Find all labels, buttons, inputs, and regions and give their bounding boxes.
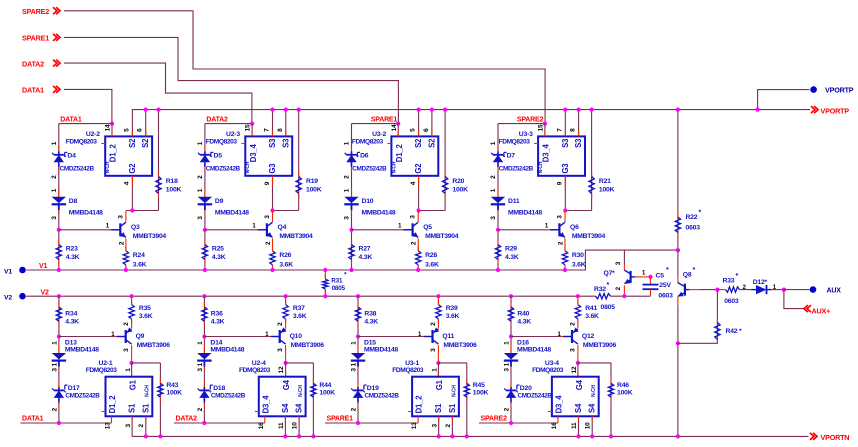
svg-text:R35: R35 xyxy=(139,305,151,312)
svg-text:U3-2: U3-2 xyxy=(372,131,386,138)
svg-text:1: 1 xyxy=(490,188,497,192)
svg-text:MMBT3904: MMBT3904 xyxy=(572,233,606,240)
svg-text:D12*: D12* xyxy=(753,279,768,286)
svg-text:3: 3 xyxy=(410,215,417,219)
svg-text:S1: S1 xyxy=(141,403,150,413)
svg-text:R46: R46 xyxy=(617,382,629,389)
svg-text:2: 2 xyxy=(411,241,418,245)
svg-text:CMDZ5242B: CMDZ5242B xyxy=(518,392,553,399)
svg-text:1: 1 xyxy=(197,188,204,192)
svg-text:CMDZ5242B: CMDZ5242B xyxy=(365,392,400,399)
svg-text:1: 1 xyxy=(125,368,132,372)
svg-text:R42 *: R42 * xyxy=(726,328,743,335)
svg-text:3: 3 xyxy=(615,261,622,265)
svg-text:N-CH: N-CH xyxy=(105,161,111,173)
svg-text:N-CH: N-CH xyxy=(245,161,251,173)
svg-text:2: 2 xyxy=(445,424,452,428)
svg-text:MMBD4148: MMBD4148 xyxy=(362,210,396,217)
svg-text:MMBT3904: MMBT3904 xyxy=(425,233,459,240)
svg-text:0603: 0603 xyxy=(724,298,739,305)
svg-text:DATA1: DATA1 xyxy=(60,116,82,123)
svg-text:FDMQ8203: FDMQ8203 xyxy=(86,367,118,374)
svg-text:12: 12 xyxy=(571,366,578,373)
svg-text:11: 11 xyxy=(571,422,578,429)
svg-text:7: 7 xyxy=(264,128,271,132)
svg-text:S4: S4 xyxy=(574,403,583,413)
svg-text:1: 1 xyxy=(504,362,511,366)
svg-text:R19: R19 xyxy=(306,178,318,185)
svg-text:0805: 0805 xyxy=(601,304,616,311)
svg-text:R23: R23 xyxy=(66,246,78,253)
svg-text:Q4: Q4 xyxy=(278,224,287,231)
svg-text:3: 3 xyxy=(123,348,130,352)
svg-text:Q8: Q8 xyxy=(683,272,692,279)
svg-text:D18: D18 xyxy=(213,385,225,392)
svg-text:7: 7 xyxy=(556,128,563,132)
svg-text:D20: D20 xyxy=(520,385,532,392)
svg-text:S1: S1 xyxy=(448,403,457,413)
svg-text:100K: 100K xyxy=(166,186,182,193)
svg-text:MMBD4148: MMBD4148 xyxy=(364,346,398,353)
svg-text:3: 3 xyxy=(351,368,358,372)
svg-text:4.3K: 4.3K xyxy=(65,319,79,326)
svg-text:4: 4 xyxy=(410,181,417,185)
svg-text:N-CH: N-CH xyxy=(298,385,304,397)
svg-text:CMDZ5242B: CMDZ5242B xyxy=(65,392,100,399)
svg-text:2: 2 xyxy=(615,287,622,291)
svg-text:DATA2: DATA2 xyxy=(176,416,198,423)
svg-text:S4: S4 xyxy=(295,403,304,413)
svg-text:D17: D17 xyxy=(68,385,80,392)
svg-text:2: 2 xyxy=(197,175,204,179)
svg-text:MMBD4148: MMBD4148 xyxy=(517,346,551,353)
svg-text:Q9: Q9 xyxy=(136,333,145,340)
svg-text:R22: R22 xyxy=(686,214,698,221)
svg-text:C5: C5 xyxy=(656,272,665,279)
svg-text:2: 2 xyxy=(265,241,272,245)
svg-text:R18: R18 xyxy=(166,178,178,185)
svg-text:4.3K: 4.3K xyxy=(212,254,226,261)
svg-text:R20: R20 xyxy=(452,178,464,185)
svg-text:0603: 0603 xyxy=(686,225,701,232)
svg-text:N-CH: N-CH xyxy=(391,161,397,173)
svg-text:2: 2 xyxy=(504,407,511,411)
svg-text:3: 3 xyxy=(197,216,204,220)
svg-text:10: 10 xyxy=(292,422,299,429)
svg-text:N-CH: N-CH xyxy=(451,385,457,397)
svg-text:100K: 100K xyxy=(319,390,335,397)
svg-text:100K: 100K xyxy=(452,186,468,193)
svg-text:1: 1 xyxy=(51,362,58,366)
svg-text:1: 1 xyxy=(51,188,58,192)
svg-text:S1: S1 xyxy=(434,403,443,413)
svg-text:FDMQ8203: FDMQ8203 xyxy=(392,367,424,374)
svg-text:100K: 100K xyxy=(166,390,182,397)
svg-text:SPARE2: SPARE2 xyxy=(481,416,508,423)
svg-text:3.6K: 3.6K xyxy=(572,261,586,268)
svg-text:D11: D11 xyxy=(508,198,520,205)
svg-text:MMBT3906: MMBT3906 xyxy=(443,342,477,349)
svg-text:25V: 25V xyxy=(659,282,671,289)
svg-text:8: 8 xyxy=(570,128,577,132)
svg-text:MMBT3904: MMBT3904 xyxy=(279,233,313,240)
svg-text:SPARE1: SPARE1 xyxy=(327,416,354,423)
svg-text:SPARE1: SPARE1 xyxy=(371,116,398,123)
svg-text:D6: D6 xyxy=(360,152,369,159)
svg-text:D8: D8 xyxy=(69,198,78,205)
svg-text:S4: S4 xyxy=(588,403,597,413)
svg-text:D9: D9 xyxy=(215,198,224,205)
svg-text:FDMQ8203: FDMQ8203 xyxy=(66,138,98,145)
svg-text:16: 16 xyxy=(551,422,558,429)
svg-text:3: 3 xyxy=(344,216,351,220)
svg-text:100K: 100K xyxy=(306,186,322,193)
svg-text:D1_2: D1_2 xyxy=(415,395,424,414)
svg-text:2: 2 xyxy=(197,407,204,411)
svg-text:MMBT3906: MMBT3906 xyxy=(137,342,171,349)
svg-text:5: 5 xyxy=(410,128,417,132)
svg-text:MMBD4148: MMBD4148 xyxy=(215,210,249,217)
svg-text:D3_4: D3_4 xyxy=(249,144,258,163)
svg-text:2: 2 xyxy=(118,241,125,245)
svg-text:14: 14 xyxy=(105,124,112,131)
svg-text:CMDZ5242B: CMDZ5242B xyxy=(352,165,387,172)
svg-text:FDMQ8203: FDMQ8203 xyxy=(352,138,384,145)
svg-text:2: 2 xyxy=(123,322,130,326)
svg-text:1: 1 xyxy=(504,341,511,345)
svg-text:G1: G1 xyxy=(129,379,138,390)
svg-text:3: 3 xyxy=(570,348,577,352)
svg-text:G4: G4 xyxy=(282,379,291,390)
svg-text:R34: R34 xyxy=(65,311,77,318)
svg-text:1: 1 xyxy=(490,141,497,145)
svg-text:10: 10 xyxy=(585,422,592,429)
svg-text:4.3K: 4.3K xyxy=(66,254,80,261)
svg-text:4.3K: 4.3K xyxy=(517,319,531,326)
svg-text:3.6K: 3.6K xyxy=(139,313,153,320)
svg-text:CMDZ5242B: CMDZ5242B xyxy=(206,165,241,172)
svg-text:DATA1: DATA1 xyxy=(22,86,44,95)
svg-text:3: 3 xyxy=(264,215,271,219)
svg-text:S2: S2 xyxy=(128,138,137,148)
svg-text:D3_4: D3_4 xyxy=(554,395,563,414)
svg-text:S4: S4 xyxy=(281,403,290,413)
svg-text:SPARE2: SPARE2 xyxy=(22,7,49,16)
svg-text:R39: R39 xyxy=(446,305,458,312)
svg-text:D1_2: D1_2 xyxy=(109,144,118,163)
svg-text:3: 3 xyxy=(556,215,563,219)
svg-text:S3: S3 xyxy=(574,138,583,148)
svg-text:G3: G3 xyxy=(268,163,277,174)
svg-text:3.6K: 3.6K xyxy=(446,313,460,320)
svg-text:U2-2: U2-2 xyxy=(86,131,100,138)
svg-text:U2-3: U2-3 xyxy=(226,131,240,138)
svg-text:9: 9 xyxy=(264,181,271,185)
svg-text:G1: G1 xyxy=(435,379,444,390)
svg-text:R30: R30 xyxy=(572,252,584,259)
svg-text:MMBD4148: MMBD4148 xyxy=(210,346,244,353)
svg-text:AUX: AUX xyxy=(827,288,842,295)
svg-text:D10: D10 xyxy=(362,198,374,205)
svg-text:3: 3 xyxy=(277,348,284,352)
svg-text:4.3K: 4.3K xyxy=(505,254,519,261)
svg-text:1: 1 xyxy=(351,362,358,366)
svg-text:N-CH: N-CH xyxy=(145,385,151,397)
svg-text:R40: R40 xyxy=(517,311,529,318)
svg-text:Q5: Q5 xyxy=(423,224,432,231)
svg-text:1: 1 xyxy=(344,188,351,192)
svg-text:MMBD4148: MMBD4148 xyxy=(508,210,542,217)
svg-text:R43: R43 xyxy=(166,382,178,389)
svg-text:13: 13 xyxy=(411,422,418,429)
svg-text:S1: S1 xyxy=(128,403,137,413)
svg-text:2: 2 xyxy=(277,322,284,326)
svg-text:0805: 0805 xyxy=(332,285,346,292)
svg-text:D1_2: D1_2 xyxy=(108,395,117,414)
svg-text:2: 2 xyxy=(557,241,564,245)
svg-text:SPARE2: SPARE2 xyxy=(517,116,544,123)
svg-text:D4: D4 xyxy=(67,152,76,159)
svg-text:4.3K: 4.3K xyxy=(364,319,378,326)
svg-text:100K: 100K xyxy=(617,390,633,397)
svg-text:V1: V1 xyxy=(4,268,12,275)
svg-text:12: 12 xyxy=(278,366,285,373)
svg-text:DATA2: DATA2 xyxy=(22,59,44,68)
svg-text:2: 2 xyxy=(51,175,58,179)
svg-text:3.6K: 3.6K xyxy=(425,261,439,268)
svg-text:4.3K: 4.3K xyxy=(359,254,373,261)
svg-text:Q10: Q10 xyxy=(290,333,303,340)
svg-text:3: 3 xyxy=(51,368,58,372)
svg-text:S2: S2 xyxy=(427,138,436,148)
svg-text:16: 16 xyxy=(258,422,265,429)
svg-text:G3: G3 xyxy=(561,163,570,174)
svg-text:S3: S3 xyxy=(281,138,290,148)
svg-text:VPORTN: VPORTN xyxy=(821,433,850,442)
svg-text:11: 11 xyxy=(278,422,285,429)
svg-text:2: 2 xyxy=(138,424,145,428)
svg-text:FDMQ8203: FDMQ8203 xyxy=(239,367,271,374)
svg-text:0603: 0603 xyxy=(658,292,673,299)
svg-text:DATA1: DATA1 xyxy=(22,416,44,423)
svg-text:R28: R28 xyxy=(425,252,437,259)
svg-text:3: 3 xyxy=(490,216,497,220)
svg-text:S3: S3 xyxy=(268,138,277,148)
svg-text:N-CH: N-CH xyxy=(538,161,544,173)
svg-text:Q6: Q6 xyxy=(570,224,579,231)
svg-text:FDMQ8203: FDMQ8203 xyxy=(532,367,564,374)
svg-text:6: 6 xyxy=(137,128,144,132)
svg-text:MMBD4148: MMBD4148 xyxy=(65,346,99,353)
svg-text:V1: V1 xyxy=(39,263,47,270)
svg-text:4.3K: 4.3K xyxy=(211,319,225,326)
svg-text:2: 2 xyxy=(351,407,358,411)
svg-text:9: 9 xyxy=(557,181,564,185)
svg-text:1: 1 xyxy=(431,368,438,372)
svg-text:5: 5 xyxy=(123,128,130,132)
svg-text:1: 1 xyxy=(197,362,204,366)
svg-text:R27: R27 xyxy=(359,246,371,253)
svg-text:3: 3 xyxy=(51,216,58,220)
svg-text:CMDZ5242B: CMDZ5242B xyxy=(60,165,95,172)
svg-text:FDMQ8203: FDMQ8203 xyxy=(499,138,531,145)
svg-text:VPORTP: VPORTP xyxy=(825,86,854,95)
svg-text:R24: R24 xyxy=(133,252,145,259)
svg-text:3: 3 xyxy=(504,368,511,372)
svg-text:100K: 100K xyxy=(473,390,489,397)
svg-text:15: 15 xyxy=(245,124,252,131)
svg-text:MMBT3904: MMBT3904 xyxy=(133,233,167,240)
svg-text:15: 15 xyxy=(538,124,545,131)
svg-text:FDMQ8203: FDMQ8203 xyxy=(206,138,238,145)
svg-text:Q3: Q3 xyxy=(131,224,140,231)
svg-text:Q11: Q11 xyxy=(442,333,454,340)
svg-text:N-CH: N-CH xyxy=(591,385,597,397)
svg-text:R41: R41 xyxy=(585,305,597,312)
svg-text:R37: R37 xyxy=(293,305,305,312)
svg-text:8: 8 xyxy=(277,128,284,132)
svg-text:D3_4: D3_4 xyxy=(261,395,270,414)
svg-text:R45: R45 xyxy=(473,382,485,389)
svg-text:Q12: Q12 xyxy=(582,333,595,340)
svg-text:D1_2: D1_2 xyxy=(395,144,404,163)
svg-text:14: 14 xyxy=(391,124,398,131)
svg-text:V2: V2 xyxy=(41,290,49,297)
svg-text:1: 1 xyxy=(51,341,58,345)
svg-text:2: 2 xyxy=(430,322,437,326)
svg-text:R36: R36 xyxy=(211,311,223,318)
svg-text:3: 3 xyxy=(117,215,124,219)
svg-text:S3: S3 xyxy=(561,138,570,148)
svg-text:MMBT3906: MMBT3906 xyxy=(583,342,617,349)
svg-text:3: 3 xyxy=(431,424,438,428)
svg-text:R44: R44 xyxy=(319,382,331,389)
svg-text:4: 4 xyxy=(124,181,131,185)
svg-text:R29: R29 xyxy=(505,246,517,253)
svg-text:3: 3 xyxy=(125,424,132,428)
svg-text:3.6K: 3.6K xyxy=(585,313,599,320)
svg-text:G2: G2 xyxy=(128,163,137,174)
svg-text:G2: G2 xyxy=(414,163,423,174)
svg-text:CMDZ5242B: CMDZ5242B xyxy=(211,392,246,399)
svg-text:100K: 100K xyxy=(599,186,615,193)
svg-text:3: 3 xyxy=(430,348,437,352)
svg-text:R21: R21 xyxy=(599,178,611,185)
svg-text:U3-3: U3-3 xyxy=(519,131,533,138)
svg-text:D19: D19 xyxy=(367,385,379,392)
svg-text:1: 1 xyxy=(197,341,204,345)
svg-text:Q7*: Q7* xyxy=(604,270,616,277)
svg-text:2: 2 xyxy=(570,322,577,326)
svg-text:R25: R25 xyxy=(212,246,224,253)
svg-text:3: 3 xyxy=(197,368,204,372)
svg-text:1: 1 xyxy=(351,341,358,345)
svg-text:1: 1 xyxy=(51,141,58,145)
svg-text:G4: G4 xyxy=(575,379,584,390)
svg-text:D5: D5 xyxy=(214,152,223,159)
svg-text:D3_4: D3_4 xyxy=(542,144,551,163)
svg-text:S2: S2 xyxy=(414,138,423,148)
svg-text:3.6K: 3.6K xyxy=(133,261,147,268)
svg-text:R32: R32 xyxy=(594,286,606,293)
svg-text:V2: V2 xyxy=(4,295,12,302)
svg-text:VPORTP: VPORTP xyxy=(821,106,850,115)
svg-text:2: 2 xyxy=(344,175,351,179)
svg-text:DATA2: DATA2 xyxy=(206,116,228,123)
svg-text:13: 13 xyxy=(105,422,112,429)
svg-text:S2: S2 xyxy=(141,138,150,148)
svg-text:1: 1 xyxy=(344,141,351,145)
svg-text:2: 2 xyxy=(490,175,497,179)
svg-text:AUX+: AUX+ xyxy=(812,306,831,315)
svg-text:CMDZ5242B: CMDZ5242B xyxy=(499,165,534,172)
svg-text:R38: R38 xyxy=(364,311,376,318)
svg-text:MMBD4148: MMBD4148 xyxy=(69,210,103,217)
svg-text:R26: R26 xyxy=(279,252,291,259)
svg-text:3.6K: 3.6K xyxy=(293,313,307,320)
svg-text:R31: R31 xyxy=(331,277,343,284)
svg-text:6: 6 xyxy=(423,128,430,132)
svg-text:R33: R33 xyxy=(723,278,735,285)
svg-text:MMBT3906: MMBT3906 xyxy=(291,342,325,349)
svg-text:2: 2 xyxy=(51,407,58,411)
svg-text:1: 1 xyxy=(197,141,204,145)
svg-text:3.6K: 3.6K xyxy=(279,261,293,268)
svg-text:D7: D7 xyxy=(507,152,516,159)
svg-text:SPARE1: SPARE1 xyxy=(22,34,49,43)
